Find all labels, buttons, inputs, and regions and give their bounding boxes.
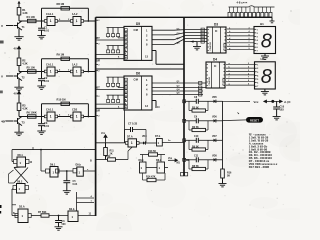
- svg-text:VD4: VD4: [142, 135, 147, 138]
- svg-text:9: 9: [249, 48, 250, 50]
- resistor R6 horizontal: [28, 115, 37, 118]
- Vdd arrow: [168, 159, 178, 162]
- svg-text:4V: 4V: [14, 92, 17, 96]
- gate D7.B: [157, 139, 163, 147]
- input label channel 3: [6, 120, 13, 122]
- counter IC D5 box: [124, 26, 152, 60]
- output wire channel 1: [84, 20, 96, 22]
- tick near oval: [238, 113, 240, 115]
- svg-text:C7 0.33: C7 0.33: [128, 122, 138, 126]
- svg-text:VD5: VD5: [212, 96, 217, 99]
- ground below T2: [18, 79, 20, 87]
- capacitor C10: [196, 138, 198, 143]
- D5 lower wires from bus: [96, 54, 124, 56]
- transistor T2: [14, 71, 23, 80]
- svg-text:R8 5K: R8 5K: [192, 165, 199, 168]
- svg-text:1: 1: [50, 70, 52, 74]
- svg-text:R10 1M: R10 1M: [57, 97, 66, 101]
- svg-text:VD8: VD8: [212, 155, 217, 158]
- transistor T1: [14, 21, 23, 30]
- svg-text:BT: BT: [97, 37, 101, 40]
- resistor R13: [149, 153, 158, 156]
- svg-text:R5 5K: R5 5K: [192, 107, 199, 110]
- wire down to D2.b: [76, 192, 78, 211]
- svg-text:1: 1: [76, 70, 78, 74]
- counter IC D6 box: [124, 76, 152, 110]
- svg-text:7: 7: [249, 41, 250, 43]
- display driver D3 box: [207, 27, 226, 53]
- op-amp A channel 1: [42, 20, 45, 22]
- collector vertical wire: [222, 101, 224, 169]
- svg-text:1A.2: 1A.2: [72, 63, 78, 67]
- svg-text:R13 5K: R13 5K: [148, 150, 156, 153]
- flip-flop D8.1: [17, 157, 26, 167]
- op-amp D7.A: [128, 139, 137, 147]
- feedback resistor channel 1: [87, 8, 89, 21]
- Vcc arrow oscillator: [104, 135, 107, 141]
- cross wires below D8.1: [14, 168, 28, 184]
- svg-text:VD7: VD7: [212, 135, 217, 138]
- svg-text:B: B: [90, 160, 92, 163]
- lower horizontal resistor R12: [96, 159, 108, 161]
- RESET oval label: [223, 119, 247, 122]
- svg-text:Q2: Q2: [125, 38, 128, 40]
- svg-text:R14 47K: R14 47K: [146, 175, 156, 178]
- H2 ground: [264, 89, 266, 92]
- power arrow channel 3: [18, 91, 21, 97]
- flip-flop D8.2: [17, 184, 26, 194]
- wire bus to op-amp input: [96, 142, 126, 144]
- svg-text:0.01: 0.01: [44, 28, 50, 32]
- svg-text:IC: IC: [214, 65, 217, 68]
- capacitor C6 shunt: [58, 216, 60, 221]
- D6 pin13 stub: [152, 100, 156, 102]
- svg-text:Vxx: Vxx: [168, 158, 173, 160]
- diode VD5: [214, 100, 216, 103]
- svg-text:H1: H1: [260, 22, 264, 26]
- svg-text:D5: D5: [136, 22, 140, 26]
- svg-text:CD40110: CD40110: [208, 76, 211, 85]
- svg-text:IC: IC: [215, 30, 218, 33]
- svg-text:1: 1: [76, 115, 78, 119]
- bus2 end pin boxes: [181, 173, 184, 176]
- svg-text:8: 8: [261, 31, 272, 53]
- H1 pin ticks: [254, 28, 256, 30]
- diode VD4: [139, 142, 143, 144]
- parallel resistor R6 5K: [188, 140, 190, 149]
- ground below C3: [37, 131, 45, 134]
- op-amp B channel 3: [73, 112, 81, 121]
- svg-text:2: 2: [98, 96, 99, 98]
- svg-text:D4: D4: [213, 57, 217, 61]
- D4 inner pin columns: [211, 62, 213, 88]
- edge label blobs: [0, 41, 4, 44]
- D5 pin13 wire down to bus: [152, 50, 156, 52]
- svg-text:2: 2: [98, 116, 99, 118]
- D6 left input combs: [107, 76, 125, 78]
- D4 to H2 segment wires: [226, 64, 255, 66]
- supply terminal at top right: [271, 17, 273, 21]
- svg-text:2: 2: [98, 71, 99, 73]
- D6 lower wires from bus: [96, 103, 124, 105]
- branch 4 wire: [183, 158, 186, 161]
- svg-text:CD2: CD2: [72, 108, 78, 112]
- svg-text:1: 1: [76, 19, 78, 23]
- output wire channel 3: [84, 116, 96, 118]
- wire from D6 down to oscillator: [124, 110, 126, 143]
- svg-text:D9.b: D9.b: [76, 163, 82, 166]
- D5 wire with label: [96, 39, 124, 41]
- svg-text:3: 3: [248, 63, 249, 65]
- power arrow channel 2: [18, 46, 21, 52]
- ground below C1: [37, 36, 45, 39]
- D6 wire with label: [96, 89, 124, 91]
- input label channel 1: [6, 25, 13, 27]
- svg-text:Q1: Q1: [125, 84, 128, 86]
- svg-text:Q3: Q3: [125, 42, 128, 44]
- resistor R11 vertical: [105, 143, 107, 148]
- transistor T3: [14, 116, 23, 125]
- svg-text:0.01: 0.01: [44, 79, 50, 83]
- branch 2 wire: [183, 119, 186, 122]
- resistor R14 47K loop: [142, 173, 144, 180]
- svg-text:Q1: Q1: [125, 34, 128, 36]
- svg-text:D3: D3: [214, 22, 218, 26]
- diode VD7: [214, 139, 216, 142]
- op-amp A channel 3: [42, 116, 45, 118]
- ground below R16: [219, 184, 227, 187]
- svg-text:0.01: 0.01: [44, 124, 50, 128]
- svg-text:RESET: RESET: [250, 118, 259, 122]
- C7 feedback loop: [125, 129, 131, 131]
- capacitor C9: [196, 118, 198, 123]
- feedback resistor channel 3: [87, 104, 89, 117]
- svg-text:1: 1: [131, 141, 133, 145]
- svg-text:VD6: VD6: [212, 116, 217, 119]
- wire D9.1 to D9.2: [58, 170, 73, 172]
- D3 ground: [196, 42, 198, 47]
- svg-text:6: 6: [249, 38, 250, 40]
- ground below C10: [273, 117, 281, 120]
- op-amp B channel 2: [73, 67, 81, 76]
- svg-text:2: 2: [98, 65, 99, 67]
- svg-text:1: 1: [50, 115, 52, 119]
- svg-text:R7 56K: R7 56K: [38, 211, 47, 214]
- bus1 tick labels: [96, 19, 98, 21]
- resistor R4 horizontal: [28, 19, 37, 22]
- node wire channel 1: [19, 20, 42, 22]
- D5 left input combs: [107, 27, 125, 29]
- svg-text:4.3K: 4.3K: [22, 107, 28, 111]
- D5 inner divider: [141, 26, 143, 60]
- diode VD8: [214, 158, 216, 161]
- svg-text:C11: C11: [194, 155, 199, 158]
- svg-text:D2.b: D2.b: [69, 208, 75, 211]
- H1 ground: [264, 54, 266, 57]
- D6 inner divider: [141, 76, 143, 110]
- resistor R1 vertical: [17, 8, 21, 16]
- op-amp A channel 2: [42, 71, 45, 73]
- svg-text:C10: C10: [194, 135, 199, 138]
- parallel resistor R8 5K: [188, 160, 190, 169]
- svg-text:5: 5: [248, 70, 249, 72]
- segment resistor row: [228, 12, 231, 17]
- cross wires to bus bottom: [77, 197, 95, 199]
- svg-text:1A.2: 1A.2: [72, 12, 78, 16]
- svg-text:5: 5: [249, 34, 250, 36]
- D3 inner pin columns: [212, 27, 214, 53]
- 7-segment display H2 box: [255, 62, 276, 89]
- capacitor C2 shunt: [41, 72, 43, 79]
- svg-text:40F: 40F: [1, 120, 6, 124]
- svg-text:D2.A: D2.A: [19, 205, 25, 208]
- wire down to D8.1: [11, 150, 13, 162]
- output wire channel 2: [84, 71, 96, 73]
- svg-text:R6 100K: R6 100K: [27, 111, 37, 115]
- input label channel 2: [6, 75, 13, 77]
- svg-text:8: 8: [261, 66, 272, 88]
- svg-text:D6: D6: [136, 72, 140, 76]
- svg-text:4.3K: 4.3K: [22, 11, 28, 15]
- capacitor C10: [276, 101, 278, 106]
- extra D3 input wire: [184, 41, 207, 43]
- svg-text:C/M: C/M: [134, 79, 138, 82]
- svg-text:D8.1: D8.1: [139, 159, 145, 162]
- resistor R7 56K: [41, 214, 49, 217]
- svg-text:d. (O: d. (O: [284, 100, 291, 104]
- branch 1 wire: [183, 100, 186, 103]
- svg-text:500: 500: [62, 223, 67, 226]
- svg-text:R17 R24 - 300R: R17 R24 - 300R: [249, 165, 270, 169]
- svg-text:H2: H2: [261, 57, 265, 61]
- gate D2.b: [68, 211, 78, 222]
- node wire channel 2: [19, 71, 42, 73]
- svg-text:S/R: S/R: [96, 61, 100, 63]
- svg-text:8: 8: [249, 45, 250, 47]
- svg-text:8: 8: [248, 80, 249, 82]
- display driver D4 box: [206, 62, 225, 88]
- main vertical bus left (box edge): [95, 17, 97, 216]
- D6 left pin strip: [125, 78, 128, 81]
- svg-text:S/R: S/R: [96, 110, 100, 112]
- ground below T3: [18, 124, 20, 132]
- svg-text:D8.2: D8.2: [17, 181, 23, 184]
- svg-text:Q3: Q3: [125, 92, 128, 94]
- wire between op-amps channel 3: [58, 116, 71, 118]
- svg-text:4-8 c×××: 4-8 c×××: [237, 0, 248, 4]
- gate D9.1: [40, 150, 42, 171]
- svg-text:R9 1M: R9 1M: [57, 52, 65, 56]
- svg-text:1: 1: [50, 19, 52, 23]
- svg-text:CA1.1: CA1.1: [46, 108, 54, 112]
- bottom row input corner: [12, 204, 16, 206]
- svg-text:R6 5K: R6 5K: [192, 126, 199, 129]
- svg-text:R5 100: R5 100: [27, 66, 36, 70]
- resistor R16 vertical: [221, 169, 225, 178]
- horizontal divider between D5 and D6 blocks: [96, 68, 184, 70]
- svg-text:R4 100: R4 100: [27, 15, 36, 19]
- gate G2: [157, 162, 165, 173]
- branch 3 wire: [183, 139, 186, 142]
- ground below C2: [37, 86, 45, 89]
- svg-text:5K: 5K: [227, 175, 230, 178]
- svg-text:CA1.1: CA1.1: [46, 12, 54, 16]
- capacitor C11: [196, 157, 198, 162]
- svg-text:0.04: 0.04: [73, 183, 78, 186]
- capacitor C3 shunt: [41, 117, 43, 124]
- capacitor C1 shunt: [41, 21, 43, 28]
- svg-text:Q2: Q2: [125, 88, 128, 90]
- D5 left pin strip: [125, 29, 128, 32]
- svg-text:6: 6: [248, 73, 249, 75]
- diode VD6: [214, 119, 216, 122]
- top horizontal bus line: [96, 16, 272, 18]
- wire to R7: [31, 215, 41, 217]
- feedback resistor channel 2: [87, 59, 89, 72]
- svg-text:V: V: [1, 24, 3, 28]
- dark dust specks: [133, 3, 134, 4]
- svg-text:BT: BT: [97, 87, 101, 90]
- svg-text:D8.1: D8.1: [18, 154, 24, 157]
- wire from collector to annotation: [223, 100, 251, 102]
- power arrow channel 1: [18, 2, 20, 8]
- long horizontal wire y150: [12, 149, 96, 151]
- gate output wire to bus: [162, 142, 184, 144]
- gate D9.2: [73, 169, 77, 173]
- output wire to bus with label 11: [78, 215, 96, 217]
- parallel resistor R6 5K: [188, 121, 190, 130]
- svg-text:C/M: C/M: [134, 29, 138, 32]
- segment resistor network bracket: [229, 6, 249, 8]
- capacitor C5 shunt: [66, 171, 68, 181]
- resistor R3 vertical: [17, 103, 21, 111]
- edge marks left: [0, 205, 2, 208]
- capacitor C8: [196, 99, 198, 104]
- svg-text:3: 3: [249, 27, 250, 29]
- svg-text:R6 5K: R6 5K: [192, 146, 199, 149]
- ground below C5: [63, 191, 71, 194]
- wire from D8.2 down to bottom row: [12, 188, 13, 190]
- node wire channel 3: [19, 116, 42, 118]
- svg-text:7: 7: [248, 77, 249, 79]
- svg-text:R12: R12: [106, 155, 111, 158]
- svg-text:Vcc: Vcc: [254, 100, 259, 104]
- parallel resistor R5 5K: [188, 101, 190, 110]
- svg-text:4V: 4V: [14, 47, 17, 51]
- right vertical bus (box edge): [183, 17, 185, 176]
- svg-text:CA1.1: CA1.1: [46, 63, 54, 67]
- wire between op-amps channel 2: [58, 71, 71, 73]
- svg-text:4.3K: 4.3K: [22, 62, 28, 66]
- resistor R2 vertical: [17, 58, 21, 66]
- ground below T1: [18, 29, 20, 37]
- svg-text:9: 9: [248, 84, 249, 86]
- resistor R5 horizontal: [28, 70, 37, 73]
- gate G1: [140, 162, 147, 173]
- wire D9.2 to bus: [83, 170, 95, 172]
- svg-text:CD40110: CD40110: [209, 41, 212, 50]
- svg-text:2: 2: [98, 44, 99, 46]
- svg-text:103: 103: [280, 109, 285, 112]
- svg-text:2: 2: [98, 20, 99, 22]
- svg-text:Vcc: Vcc: [101, 132, 106, 135]
- H2 pin ticks: [255, 64, 257, 66]
- svg-text:D9.1: D9.1: [50, 163, 56, 166]
- gate D2.A: [12, 215, 18, 217]
- op-amp B channel 1: [73, 17, 81, 26]
- D3 to H1 segment wires: [227, 28, 254, 30]
- wire between gates: [146, 167, 157, 169]
- svg-text:D7.A: D7.A: [127, 136, 133, 139]
- wire between op-amps channel 1: [58, 20, 71, 22]
- svg-text:V: V: [1, 75, 3, 79]
- ground below C6: [55, 227, 63, 230]
- svg-text:D7.b: D7.b: [155, 135, 161, 138]
- 7-segment display H1 box: [254, 27, 276, 54]
